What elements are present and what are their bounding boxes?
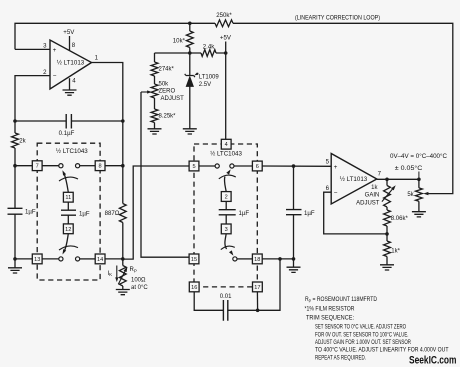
svg-text:4: 4 [225, 142, 228, 148]
wire - 8.06k to feedback node [386, 226, 388, 234]
switch S1b travel arc [59, 246, 78, 250]
svg-text:5k: 5k [407, 192, 414, 198]
svg-text:274k*: 274k* [159, 66, 175, 72]
wire - 274k chain top [154, 53, 156, 62]
wire - 1k* to ground [386, 257, 388, 265]
svg-text:1µF: 1µF [79, 211, 90, 218]
pin 7 box [32, 161, 42, 171]
switch contact circle S2b [233, 257, 237, 261]
junction - gain pot tap at output [385, 178, 389, 182]
wire - pin2 node down to 1uF cap [14, 148, 16, 208]
ground at right block node [287, 267, 301, 272]
svg-text:1µF: 1µF [25, 209, 36, 216]
junction - 0.01 cap riser at box18 wire [278, 257, 282, 261]
wire - contact to box 14 [80, 258, 96, 260]
switch contact circle S2a left [215, 164, 219, 168]
op-amp U1b half LT1013 (right) [331, 154, 377, 205]
svg-text:RP = ROSEMOUNT 118MFRTD: RP = ROSEMOUNT 118MFRTD [305, 296, 377, 303]
junction - box7 wire at pin2 chain [13, 164, 17, 168]
wire - 0.01 cap to box18 wire riser [228, 259, 280, 310]
svg-text:6: 6 [256, 164, 259, 170]
wire - box 5 to switch contact [199, 165, 215, 167]
ground below 8.25k [148, 129, 162, 134]
pin 12 box [63, 224, 73, 234]
resistor 10k* [189, 23, 191, 31]
junction - pin5 node at 1uF [292, 164, 296, 168]
wire - contact to box 6 [234, 165, 252, 167]
resistor 2k [12, 133, 19, 148]
svg-text:8.06k*: 8.06k* [391, 216, 409, 222]
svg-text:10k*: 10k* [173, 37, 186, 44]
pin 18 box [252, 254, 262, 264]
pin 15 box [189, 254, 199, 264]
svg-text:± 0.05°C: ± 0.05°C [395, 166, 423, 172]
wire - box 18 to ground node [262, 258, 293, 260]
wire - node to LT1009 [189, 53, 191, 76]
junction - +5V rail at 2.4k [224, 51, 228, 55]
svg-text:½ LT1013: ½ LT1013 [57, 60, 85, 67]
junction - output node [417, 178, 421, 182]
switch contact circle S1a right [76, 164, 80, 168]
wire - box 8 to output node [105, 165, 123, 167]
ground below 1k* [380, 265, 394, 270]
svg-text:*1% FILM RESISTOR: *1% FILM RESISTOR [305, 306, 355, 313]
svg-text:2.4k: 2.4k [203, 44, 215, 51]
svg-text:TRIM SEQUENCE:: TRIM SEQUENCE: [306, 315, 354, 322]
ground at U1a pin 4 [63, 90, 77, 95]
svg-text:8.25k*: 8.25k* [159, 113, 177, 119]
junction - 10k bottom node [188, 51, 192, 55]
junction - output node at box 8 row [121, 164, 125, 168]
svg-text:(LINEARITY CORRECTION LOOP): (LINEARITY CORRECTION LOOP) [295, 16, 380, 22]
wire - 50k to 8.25k [154, 98, 156, 109]
potentiometer 5k (linearity) [418, 179, 420, 188]
resistor 250k* (linearity loop, horizontal) [215, 20, 233, 27]
switch contact circle S1b right [76, 257, 80, 261]
resistor 274k* [151, 62, 158, 76]
wire - box 14 to sensor node [105, 258, 123, 260]
svg-text:RP: RP [130, 267, 137, 273]
wire - 1uF flying to box 12 [67, 215, 69, 224]
wire - RP to ground [122, 286, 124, 290]
resistor 887 ohm [119, 204, 126, 223]
pin 2 box [221, 192, 231, 202]
wire - switch contact to box 8 [80, 165, 96, 167]
svg-text:−: − [53, 73, 57, 80]
wire - box 16 to 0.01 cap [194, 292, 223, 311]
wire - box 2 to 1uF flying cap [225, 201, 227, 209]
svg-text:5: 5 [192, 164, 195, 170]
wire - box 17 down to 0.01 wire [256, 292, 258, 311]
sensor RP platinum RTD with arrow [119, 266, 126, 287]
wire - U1a pin 4 to ground [69, 78, 71, 90]
pin 14 box [95, 254, 105, 264]
svg-text:½ LTC1043: ½ LTC1043 [56, 148, 88, 155]
capacitor 1uF (left bottom) [8, 208, 23, 214]
ground below 5k [412, 212, 426, 217]
svg-text:IK: IK [108, 271, 113, 277]
svg-text:15: 15 [191, 257, 197, 263]
svg-text:2: 2 [225, 195, 228, 201]
svg-text:3: 3 [43, 43, 47, 50]
svg-text:12: 12 [65, 227, 71, 233]
svg-text:3: 3 [225, 227, 228, 233]
switch contact circle S1a left [59, 164, 63, 168]
wire - pin 3 input from top loop [15, 48, 50, 50]
capacitor 1uF (output filter) [286, 210, 302, 215]
pin 5 box [189, 161, 199, 171]
wire - 1uF to ground node [14, 214, 16, 268]
svg-text:6: 6 [326, 185, 330, 192]
resistor 8.25k* [151, 109, 158, 123]
svg-text:FOR 0V OUT. SET SENSOR TO 100°: FOR 0V OUT. SET SENSOR TO 100°C VALUE. [315, 332, 409, 339]
resistor 8.06k* [384, 210, 391, 226]
svg-text:+: + [53, 47, 57, 54]
svg-text:1µF: 1µF [239, 210, 250, 217]
wire - pin5 node down to 1uF [293, 166, 295, 210]
wire - feedback node to 1k* [386, 234, 388, 241]
notes text block [305, 296, 449, 362]
wire - right block pin 5 down to sensor node [123, 166, 199, 259]
switch contact circle S2a right [230, 164, 234, 168]
ground below RP [116, 290, 130, 295]
wire - 1uF to ground node [293, 215, 295, 268]
junction - top wire at 10k [188, 22, 192, 26]
potentiometer 1k GAIN ADJUST [386, 179, 388, 185]
wire - LT1009 anode to ground [189, 87, 191, 129]
pin 13 box [32, 254, 42, 264]
svg-text:1k*: 1k* [391, 248, 400, 254]
wire - box 13 to contact [42, 258, 59, 260]
svg-text:LT1009: LT1009 [199, 75, 220, 81]
pin 4 box [221, 139, 231, 149]
pin 6 box [252, 161, 262, 171]
switch S2b travel arc [221, 246, 235, 250]
switch S2b pole from pin 3 with arrow [225, 234, 227, 249]
switch S1a pole from pin 11 with arrow [64, 173, 68, 192]
svg-text:18: 18 [254, 257, 260, 263]
junction - sensor node [121, 257, 125, 261]
wire - box 6 to U1b pin 5 [262, 165, 331, 167]
wire - node to box 13 [15, 258, 33, 260]
resistor 2.4k (horizontal) [201, 50, 216, 57]
svg-text:0.01: 0.01 [220, 294, 232, 300]
switch contact circle S1b left [59, 257, 63, 261]
wire - 887 ohm to sensor node [122, 223, 124, 266]
wire - 1uF flying to box 3 [225, 215, 227, 224]
pin 16 box [189, 282, 199, 292]
junction - ground node right block [292, 257, 296, 261]
wire - 274k to 50k [154, 76, 156, 84]
wire - U1a pin 2 input [15, 76, 50, 133]
wire - U1a output pin 1 to node A (down to 887 ohm chain) [92, 63, 123, 204]
svg-text:14: 14 [97, 257, 103, 263]
svg-text:887Ω: 887Ω [105, 210, 120, 217]
wire - contact to box 18 [237, 258, 252, 260]
svg-text:GAIN: GAIN [365, 193, 380, 199]
svg-text:−: − [334, 190, 338, 197]
pin 3 box [221, 224, 231, 234]
wire - U1b pin 6 feedback [324, 192, 387, 234]
pin 8 box [95, 161, 105, 171]
wire - gain pot to 8.06k [386, 207, 388, 210]
svg-text:4: 4 [72, 78, 76, 85]
ground below LT1009 [183, 129, 197, 134]
svg-text:ZERO: ZERO [159, 88, 176, 94]
svg-text:at 0°C: at 0°C [131, 285, 148, 291]
svg-text:REPEAT AS REQUIRED.: REPEAT AS REQUIRED. [315, 355, 366, 362]
svg-text:+5V: +5V [63, 29, 75, 36]
svg-text:13: 13 [34, 257, 40, 263]
svg-text:11: 11 [65, 195, 71, 201]
svg-text:SeekIC.com: SeekIC.com [409, 354, 457, 366]
svg-text:½ LT1013: ½ LT1013 [340, 176, 368, 183]
op-amp U1a half LT1013 (left) [50, 40, 92, 89]
wire - box 7 to switch contact [42, 165, 59, 167]
wire - pin2 chain to box 7 [15, 165, 32, 167]
svg-text:TO 400°C VALUE. ADJUST LINEARI: TO 400°C VALUE. ADJUST LINEARITY FOR 4.0… [315, 347, 449, 354]
svg-text:2.5V: 2.5V [199, 82, 211, 88]
capacitor 1uF flying (right block) [219, 210, 236, 215]
junction - output node meets 0.1uF wire [121, 119, 125, 123]
svg-text:ADJUST: ADJUST [161, 96, 185, 102]
svg-text:8: 8 [99, 164, 102, 170]
svg-text:1k: 1k [371, 185, 378, 191]
svg-text:2k: 2k [19, 138, 26, 145]
svg-text:250k*: 250k* [216, 12, 232, 19]
svg-text:ADJUST GAIN FOR 1.000V OUT. SE: ADJUST GAIN FOR 1.000V OUT. SET SENSOR [315, 339, 411, 346]
svg-text:1: 1 [95, 55, 99, 62]
wire - 8.25k to ground [154, 123, 156, 129]
wire - 5k to ground [418, 201, 420, 211]
switch S1a travel arc [59, 177, 78, 181]
svg-text:8: 8 [72, 42, 76, 49]
svg-text:½ LTC1043: ½ LTC1043 [210, 151, 242, 158]
junction - 0.1uF wire at pin2 node [13, 119, 17, 123]
svg-text:2: 2 [43, 69, 47, 76]
svg-text:100Ω: 100Ω [131, 277, 146, 283]
junction - box 17 tap on 0.01 wire [256, 309, 260, 313]
svg-text:16: 16 [191, 285, 197, 291]
svg-text:5: 5 [326, 158, 330, 165]
wire - box 11 to 1uF flying cap [67, 202, 69, 210]
svg-text:1µF: 1µF [304, 210, 315, 217]
wire - U1b output pin 7 [377, 178, 419, 180]
switch S1b pole from pin 12 with arrow [64, 234, 68, 252]
zener diode D1 LT1009 2.5V [185, 74, 195, 77]
svg-text:50k: 50k [159, 81, 170, 87]
svg-text:7: 7 [36, 164, 39, 170]
svg-text:ADJUST: ADJUST [356, 200, 380, 206]
capacitor 0.01 [223, 300, 227, 321]
svg-text:+: + [334, 164, 338, 171]
pin 11 box [63, 192, 73, 202]
switch S2a pole from pin 2 with arrow [224, 177, 226, 192]
svg-text:SET SENSOR TO 0°C VALUE. ADJUS: SET SENSOR TO 0°C VALUE. ADJUST ZERO [315, 324, 406, 331]
wire - 50k wiper down to pin 15 of LTC1043 [141, 92, 189, 257]
junction - box 13 wire at ground node [13, 257, 17, 261]
wire - linearity correction loop: feedback from pin 3 node along top and down right side to 5k pot wiper [15, 23, 453, 193]
svg-text:0.1µF: 0.1µF [59, 130, 75, 137]
IC U2a half LTC1043 dashed outline (left) [37, 143, 100, 280]
svg-text:17: 17 [254, 285, 260, 291]
switch S2a travel arc [219, 175, 236, 179]
wire - node to 274k chain and 2.4k [155, 52, 226, 54]
svg-text:7: 7 [378, 170, 382, 177]
svg-text:+5V: +5V [220, 35, 232, 42]
capacitor 0.1uF (feedback across U1a) [15, 120, 123, 122]
svg-text:0V–4V = 0°C–400°C: 0V–4V = 0°C–400°C [390, 154, 448, 160]
pin 17 box [253, 282, 263, 292]
junction - feedback node [385, 232, 389, 236]
potentiometer 50k ZERO ADJUST [151, 84, 158, 98]
ground at left bottom node [8, 268, 22, 273]
resistor 1k* [384, 241, 391, 257]
capacitor 1uF flying (left block) [61, 210, 76, 215]
IC U2b half LTC1043 dashed outline (right) [194, 144, 257, 287]
